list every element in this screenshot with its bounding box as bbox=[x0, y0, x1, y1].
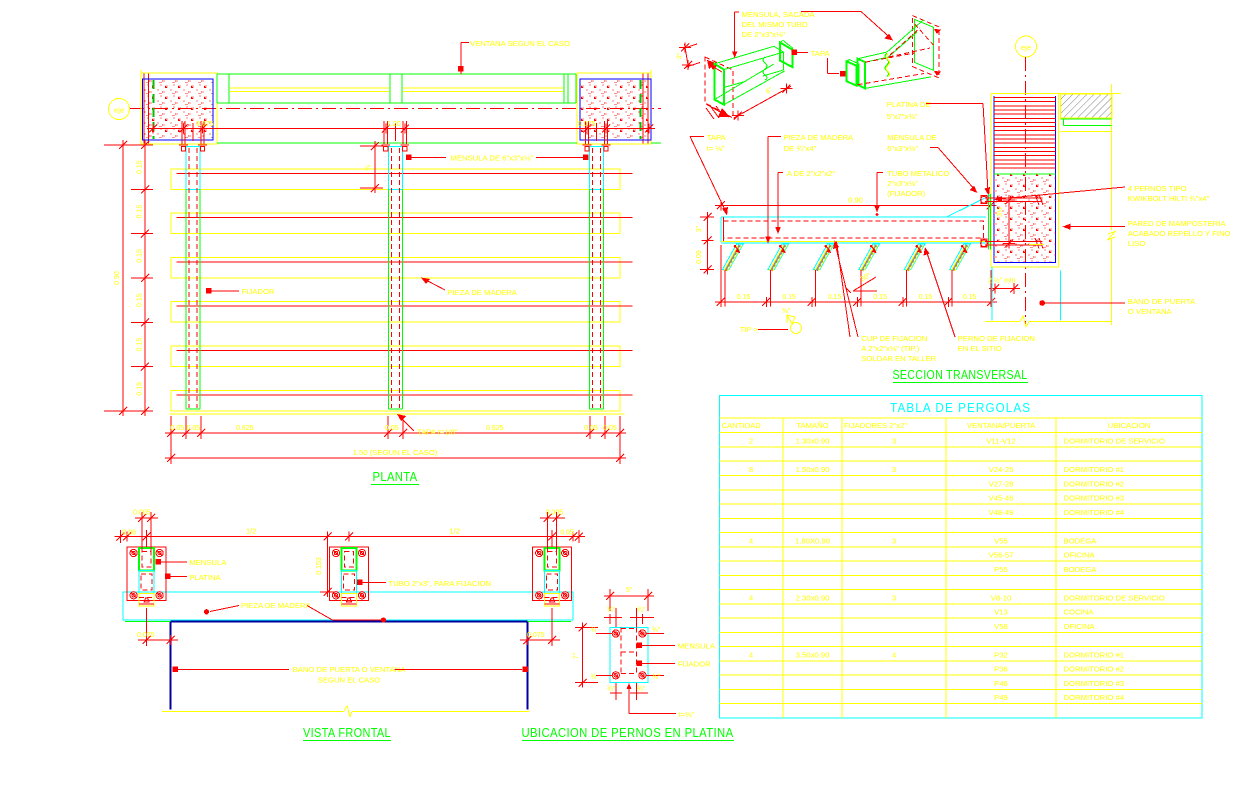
PLANTA view group bbox=[109, 39, 662, 144]
svg-text:6"x3"x⅛": 6"x3"x⅛" bbox=[887, 144, 918, 153]
wall top yellow line bbox=[991, 92, 1121, 94]
svg-text:V8-10: V8-10 bbox=[991, 593, 1012, 602]
bracket assembly 1 (vista frontal) bbox=[127, 547, 166, 600]
svg-text:0.05: 0.05 bbox=[385, 425, 399, 432]
dim 3" iso left bbox=[683, 44, 697, 49]
svg-text:SOLDAR EN TALLER: SOLDAR EN TALLER bbox=[861, 354, 936, 363]
dim 7" left bbox=[582, 627, 584, 682]
angled slat 3 (seccion) bbox=[813, 244, 834, 269]
svg-text:0.15: 0.15 bbox=[782, 294, 796, 301]
svg-text:TABLA DE PERGOLAS: TABLA DE PERGOLAS bbox=[890, 401, 1031, 415]
svg-text:1.30x0.90: 1.30x0.90 bbox=[796, 436, 830, 445]
left column green dashed face bbox=[153, 80, 155, 139]
wall centerline bbox=[1025, 57, 1027, 325]
iso mensula left: red dashed wall plate bbox=[705, 57, 733, 118]
dim 3" (tube height) bbox=[707, 217, 709, 241]
svg-text:LISO: LISO bbox=[1128, 239, 1146, 248]
svg-text:V27-28: V27-28 bbox=[989, 479, 1014, 488]
bottom dim row 0.05/0.625 bbox=[171, 432, 620, 434]
svg-text:3: 3 bbox=[892, 536, 896, 545]
svg-text:0.05: 0.05 bbox=[187, 425, 201, 432]
svg-text:3": 3" bbox=[696, 225, 703, 232]
right column concrete square bbox=[580, 79, 651, 140]
svg-text:8: 8 bbox=[749, 465, 753, 474]
svg-text:2.30x0.90: 2.30x0.90 bbox=[796, 593, 830, 602]
small side dims bbox=[596, 633, 612, 635]
svg-text:MENSULA DE: MENSULA DE bbox=[887, 133, 937, 142]
svg-text:OFICINA: OFICINA bbox=[1064, 551, 1096, 560]
top dim line 1/2,1/2 bbox=[120, 536, 578, 538]
band lower edge green bbox=[217, 142, 577, 144]
left column concrete square bbox=[143, 79, 214, 140]
small dims 3/4 bottom bbox=[615, 683, 617, 700]
angled slat 6 (seccion) bbox=[950, 244, 971, 269]
svg-text:¾": ¾" bbox=[607, 686, 616, 693]
base yellow pad 1 bbox=[139, 593, 154, 606]
svg-text:1.50 (SEGUN EL CASO): 1.50 (SEGUN EL CASO) bbox=[353, 448, 438, 457]
svg-text:CUP DE FIJACION: CUP DE FIJACION bbox=[861, 334, 927, 343]
svg-text:1.80X0.90: 1.80X0.90 bbox=[795, 536, 830, 545]
svg-text:V11-V12: V11-V12 bbox=[986, 436, 1015, 445]
small dims 3/4 top bbox=[609, 614, 611, 624]
svg-text:0.15: 0.15 bbox=[137, 338, 144, 352]
svg-text:FIJADOR: FIJADOR bbox=[242, 287, 275, 296]
svg-text:¾": ¾" bbox=[652, 674, 661, 681]
svg-text:3: 3 bbox=[892, 593, 896, 602]
svg-text:V45-46: V45-46 bbox=[989, 494, 1014, 503]
svg-text:P32: P32 bbox=[994, 650, 1008, 659]
svg-text:0.15: 0.15 bbox=[963, 294, 977, 301]
svg-text:V55: V55 bbox=[994, 536, 1008, 545]
svg-text:4: 4 bbox=[749, 650, 754, 659]
post 1 anchor bolts bbox=[192, 123, 194, 141]
anchor bolt upper bbox=[985, 197, 1042, 199]
wall outer yellow verticals bbox=[990, 93, 992, 267]
wood slat 6 (pieza de madera) bbox=[171, 390, 620, 411]
svg-text:DORMITORIO #1: DORMITORIO #1 bbox=[1064, 650, 1125, 659]
mensula green rect 3 bbox=[545, 548, 560, 571]
svg-text:OFICINA: OFICINA bbox=[1064, 622, 1096, 631]
svg-text:VISTA FRONTAL: VISTA FRONTAL bbox=[303, 726, 391, 740]
table outer border (cyan) bbox=[719, 396, 1202, 719]
svg-text:COCINA: COCINA bbox=[1064, 608, 1095, 617]
svg-text:BODEGA: BODEGA bbox=[1064, 536, 1098, 545]
svg-text:V56-57: V56-57 bbox=[989, 551, 1014, 560]
svg-text:1/2: 1/2 bbox=[246, 527, 257, 536]
centerline eje (planta) bbox=[130, 108, 661, 110]
svg-text:0.05: 0.05 bbox=[560, 529, 574, 536]
iso left red arrows on plate bbox=[712, 66, 722, 72]
svg-text:CANTIDAD: CANTIDAD bbox=[722, 421, 762, 430]
svg-text:PIEZA DE MADERA: PIEZA DE MADERA bbox=[447, 288, 518, 297]
wood slat 5 (pieza de madera) bbox=[171, 346, 620, 367]
svg-text:MENSULA: MENSULA bbox=[678, 642, 716, 651]
svg-text:eje: eje bbox=[114, 106, 124, 115]
fijador post 2 green sides bbox=[387, 190, 389, 410]
dim 0.153 vertical (center) bbox=[327, 537, 329, 593]
wall lower cyan jambs bbox=[991, 267, 993, 321]
bottom dim row 1.50 bbox=[171, 457, 620, 459]
iso mensula right: tube left end face bbox=[858, 59, 865, 89]
svg-text:1.20: 1.20 bbox=[387, 121, 401, 128]
right column green dashed face bbox=[640, 80, 642, 139]
green ledge lines bbox=[1060, 118, 1111, 120]
svg-text:4: 4 bbox=[749, 536, 754, 545]
iso right cut squiggle bbox=[885, 53, 889, 77]
platina cyan rect 2 bbox=[342, 571, 357, 594]
svg-text:UBICACION: UBICACION bbox=[1108, 421, 1151, 430]
svg-text:V24-25: V24-25 bbox=[989, 465, 1014, 474]
dim chain 0.15 x6 (left) bbox=[144, 145, 146, 411]
dim 5" top bbox=[610, 595, 648, 597]
iso left cut squiggle bbox=[763, 57, 767, 80]
iso right red dashed hidden edges bbox=[858, 74, 924, 85]
angled slat 1 (seccion) bbox=[722, 244, 743, 269]
base yellow pad 2 bbox=[342, 593, 357, 606]
platina green lines at wall bbox=[988, 194, 990, 250]
svg-text:0.075: 0.075 bbox=[137, 632, 155, 639]
svg-text:DORMITORIO #4: DORMITORIO #4 bbox=[1064, 508, 1125, 517]
left column outline bbox=[141, 73, 217, 144]
svg-text:¾": ¾" bbox=[652, 627, 661, 634]
angled slat 4 (seccion) bbox=[859, 244, 880, 269]
svg-text:MENSULA: MENSULA bbox=[189, 558, 227, 567]
iso mensula right: red dashed wall plate bbox=[912, 16, 939, 78]
svg-text:DEL MISMO TUBO: DEL MISMO TUBO bbox=[742, 20, 808, 29]
svg-text:KWIKBOLT HILTI ¾"x4": KWIKBOLT HILTI ¾"x4" bbox=[1128, 194, 1210, 203]
floor line with break bbox=[162, 711, 344, 713]
svg-text:7": 7" bbox=[573, 652, 580, 659]
dim 0.90 (seccion) bbox=[721, 204, 991, 206]
svg-text:DORMITORIO DE SERVICIO: DORMITORIO DE SERVICIO bbox=[1064, 593, 1165, 602]
post 3 anchor bolts bbox=[596, 123, 598, 141]
svg-text:5"x7"x⅜": 5"x7"x⅜" bbox=[887, 112, 918, 121]
svg-text:FIJADOR: FIJADOR bbox=[678, 660, 711, 669]
svg-text:DORMITORIO #3: DORMITORIO #3 bbox=[1064, 679, 1125, 688]
iso mensula left: end cap TAPA (thick green) bbox=[780, 42, 792, 67]
svg-text:⅜": ⅜" bbox=[782, 308, 791, 315]
svg-text:PARED DE MAMPOSTERIA: PARED DE MAMPOSTERIA bbox=[1128, 219, 1227, 228]
iso right red plate arrows bbox=[934, 29, 941, 34]
right wall hatch block bbox=[1060, 94, 1112, 118]
svg-text:0.625: 0.625 bbox=[486, 425, 504, 432]
svg-text:DORMITORIO #1: DORMITORIO #1 bbox=[1064, 465, 1125, 474]
svg-text:0.05: 0.05 bbox=[603, 425, 617, 432]
svg-text:P49: P49 bbox=[994, 693, 1008, 702]
angle 30 deg bbox=[853, 277, 876, 291]
svg-text:V13: V13 bbox=[994, 608, 1008, 617]
svg-text:0.075: 0.075 bbox=[527, 632, 545, 639]
svg-text:¾": ¾" bbox=[637, 607, 646, 614]
fijador post 3 red dashed tube bbox=[592, 148, 594, 408]
main tube (tubo metalico fijador) bbox=[721, 216, 986, 218]
svg-text:TIP >: TIP > bbox=[740, 325, 759, 334]
svg-text:0.15: 0.15 bbox=[828, 294, 842, 301]
svg-text:TUBO 2"x3", PARA FIJACION: TUBO 2"x3", PARA FIJACION bbox=[388, 579, 491, 588]
svg-text:SEGUN EL CASO: SEGUN EL CASO bbox=[318, 676, 381, 685]
svg-text:¾: ¾ bbox=[591, 627, 597, 634]
svg-text:0.15: 0.15 bbox=[873, 294, 887, 301]
svg-text:P36: P36 bbox=[994, 665, 1008, 674]
svg-text:V48-49: V48-49 bbox=[989, 508, 1014, 517]
svg-text:2: 2 bbox=[749, 436, 753, 445]
iso mensula right: green platina bbox=[915, 19, 934, 70]
svg-text:4: 4 bbox=[749, 593, 754, 602]
svg-text:4 PERNOS TIPO: 4 PERNOS TIPO bbox=[1128, 184, 1187, 193]
post 2 anchor bolts bbox=[394, 123, 396, 141]
fijador post 1 green sides bbox=[185, 190, 187, 410]
mensula green rect 1 bbox=[139, 548, 154, 571]
pieza de madera band bbox=[123, 592, 573, 620]
wood slat 2 (pieza de madera) bbox=[171, 213, 620, 234]
svg-text:0.075: 0.075 bbox=[196, 121, 214, 128]
svg-text:PERNO DE FIJACION: PERNO DE FIJACION bbox=[958, 334, 1035, 343]
svg-text:0.05: 0.05 bbox=[171, 425, 185, 432]
left jamb lines bbox=[140, 70, 142, 144]
iso mensula left: tube left end face (thick) bbox=[715, 64, 725, 105]
fijador post 3 green sides bbox=[589, 190, 591, 410]
mensula green rect 2 bbox=[342, 548, 357, 571]
iso mensula right: TAPA cap (thick green) bbox=[847, 61, 857, 85]
svg-text:¾: ¾ bbox=[591, 674, 597, 681]
lower floor line with break bbox=[985, 321, 1020, 323]
svg-text:0.15: 0.15 bbox=[137, 293, 144, 307]
fijador post 1 red dashed tube bbox=[188, 148, 190, 408]
eje symbol circle (planta) bbox=[109, 99, 130, 120]
svg-text:A 2"x2"x⅛" (TIP.): A 2"x2"x⅛" (TIP.) bbox=[861, 344, 919, 353]
right jamb lines bbox=[650, 70, 652, 144]
wall bottom bbox=[994, 262, 1056, 264]
slat base line bbox=[170, 413, 625, 415]
sill line green/blue bbox=[125, 621, 171, 623]
dim 0.90 overall (left) bbox=[122, 145, 124, 411]
svg-text:0.15: 0.15 bbox=[137, 249, 144, 263]
dim row 0.15 x6 (seccion) bbox=[721, 301, 991, 303]
svg-text:TAPA: TAPA bbox=[707, 133, 727, 142]
wall block hatch (upper) bbox=[993, 96, 995, 263]
angled slat 5 (seccion) bbox=[904, 244, 925, 269]
dim 0.075 left bbox=[146, 608, 148, 646]
window frame (ventana) bbox=[217, 73, 576, 75]
small dim 0.005 right bbox=[540, 517, 565, 519]
svg-text:5": 5" bbox=[626, 587, 633, 594]
svg-text:2"x3"x⅛": 2"x3"x⅛" bbox=[887, 179, 918, 188]
window glass lines (yellow) bbox=[230, 87, 389, 89]
svg-text:0.90: 0.90 bbox=[114, 271, 121, 285]
svg-text:O VENTANA: O VENTANA bbox=[1128, 307, 1173, 316]
fijador post 3 cyan top segment bbox=[590, 147, 604, 190]
dim 0.075 right bbox=[551, 608, 553, 646]
svg-text:A DE 2"x2"x2": A DE 2"x2"x2" bbox=[787, 169, 836, 178]
door jamb verticals (blue) bbox=[170, 622, 172, 710]
svg-text:0.05: 0.05 bbox=[584, 425, 598, 432]
iso mensula left: bottom taper edges bbox=[715, 64, 774, 100]
svg-text:DE 2"x3"x⅛": DE 2"x3"x⅛" bbox=[742, 30, 786, 39]
mensula dashed tube bbox=[620, 627, 622, 673]
svg-text:DORMITORIO #2: DORMITORIO #2 bbox=[1064, 665, 1125, 674]
svg-text:SECCION TRANSVERSAL: SECCION TRANSVERSAL bbox=[893, 368, 1028, 382]
dim 6" iso left bbox=[734, 86, 792, 118]
svg-text:TUBO METALICO: TUBO METALICO bbox=[887, 169, 949, 178]
svg-text:VENTANA SEGUN EL CASO: VENTANA SEGUN EL CASO bbox=[470, 39, 570, 48]
wood slat 4 (pieza de madera) bbox=[171, 302, 620, 323]
svg-text:t= ⅛": t= ⅛" bbox=[707, 144, 725, 153]
base yellow pad 3 bbox=[545, 593, 560, 606]
svg-text:BANO DE PUERTA: BANO DE PUERTA bbox=[1128, 297, 1196, 306]
svg-text:0.15: 0.15 bbox=[137, 160, 144, 174]
svg-text:UBICACION DE PERNOS EN PLATINA: UBICACION DE PERNOS EN PLATINA bbox=[522, 726, 734, 740]
bracket assembly 2 (vista frontal) bbox=[330, 547, 369, 600]
svg-text:0.075: 0.075 bbox=[578, 121, 596, 128]
svg-text:3.50x0.90: 3.50x0.90 bbox=[796, 650, 830, 659]
bracket assembly 3 (vista frontal) bbox=[533, 547, 572, 600]
platina plate cyan bbox=[610, 627, 648, 682]
svg-text:TAMAÑO: TAMAÑO bbox=[796, 421, 828, 430]
fijador post 1 cyan top segment bbox=[186, 147, 200, 190]
wood slat 1 (pieza de madera) bbox=[171, 169, 620, 190]
svg-text:eje: eje bbox=[1021, 43, 1031, 52]
svg-text:0.09: 0.09 bbox=[696, 250, 703, 264]
svg-text:DORMITORIO #3: DORMITORIO #3 bbox=[1064, 494, 1125, 503]
svg-text:VENTANA/PUERTA: VENTANA/PUERTA bbox=[967, 421, 1036, 430]
wall concrete stipple (lower) bbox=[994, 175, 1056, 263]
wood slat 3 (pieza de madera) bbox=[171, 257, 620, 278]
svg-text:PLATINA DE: PLATINA DE bbox=[887, 100, 931, 109]
iso mensula left: green tube top face bbox=[715, 46, 784, 69]
dim 3 1/2 between bolts bbox=[1008, 200, 1010, 243]
svg-text:¾": ¾" bbox=[637, 686, 646, 693]
svg-text:0.15: 0.15 bbox=[137, 382, 144, 396]
iso mensula right: tube edges bbox=[858, 52, 887, 59]
svg-text:PIEZA DE MADERA: PIEZA DE MADERA bbox=[784, 133, 855, 142]
angled slat 2 (seccion) bbox=[768, 244, 789, 269]
svg-text:BODEGA: BODEGA bbox=[1064, 565, 1098, 574]
svg-text:DE ¾"x4": DE ¾"x4" bbox=[784, 144, 817, 153]
dim line 0.075 / 1.20 / 0.075 bbox=[153, 128, 649, 130]
svg-text:0.153: 0.153 bbox=[316, 557, 323, 575]
svg-text:(FIJADOR): (FIJADOR) bbox=[887, 189, 925, 198]
svg-text:3: 3 bbox=[892, 465, 896, 474]
svg-text:P55: P55 bbox=[994, 565, 1008, 574]
svg-text:0.15: 0.15 bbox=[919, 294, 933, 301]
svg-text:DORMITORIO #2: DORMITORIO #2 bbox=[1064, 479, 1125, 488]
svg-text:FIJADORES 2"x2": FIJADORES 2"x2" bbox=[844, 421, 907, 430]
svg-text:PLANTA: PLANTA bbox=[373, 470, 418, 484]
fijador post 2 cyan top segment bbox=[388, 147, 402, 190]
svg-text:1.50x0.90: 1.50x0.90 bbox=[796, 465, 830, 474]
svg-text:0.15: 0.15 bbox=[137, 205, 144, 219]
svg-text:DORMITORIO DE SERVICIO: DORMITORIO DE SERVICIO bbox=[1064, 436, 1165, 445]
svg-text:TAPA t=1/8": TAPA t=1/8" bbox=[417, 428, 458, 437]
table grid lines bbox=[719, 417, 1202, 419]
small dim at center post bbox=[374, 146, 376, 188]
anchor bolt lower bbox=[985, 241, 1042, 243]
svg-text:BANO DE PUERTA O VENTANA: BANO DE PUERTA O VENTANA bbox=[293, 665, 407, 674]
svg-text:0.06: 0.06 bbox=[122, 529, 136, 536]
svg-text:t=⅛": t=⅛" bbox=[679, 710, 695, 719]
small dim 0.005 left bbox=[135, 517, 158, 519]
svg-text:3½: 3½ bbox=[996, 207, 1004, 217]
svg-text:DORMITORIO #4: DORMITORIO #4 bbox=[1064, 693, 1125, 702]
dim 0.09 (slat drop) bbox=[707, 241, 709, 269]
svg-text:PLATINA: PLATINA bbox=[189, 573, 221, 582]
svg-text:0.005: 0.005 bbox=[546, 510, 564, 517]
svg-text:0.90: 0.90 bbox=[848, 196, 863, 205]
svg-text:ACABADO REPELLO Y FINO: ACABADO REPELLO Y FINO bbox=[1128, 229, 1231, 238]
svg-text:¾": ¾" bbox=[607, 607, 616, 614]
pernos (4 bolts) bbox=[612, 630, 619, 637]
fijador post 2 red dashed tube bbox=[390, 148, 392, 408]
iso mensula left: green tube front face bbox=[724, 52, 783, 87]
svg-text:0.15: 0.15 bbox=[737, 294, 751, 301]
svg-text:1/2: 1/2 bbox=[449, 527, 460, 536]
svg-text:MENSULA DE 6"x3"x⅛": MENSULA DE 6"x3"x⅛" bbox=[451, 154, 534, 163]
svg-text:0.625: 0.625 bbox=[236, 425, 254, 432]
platina cyan rect 1 bbox=[139, 571, 154, 594]
svg-text:4: 4 bbox=[892, 650, 897, 659]
svg-text:EN EL SITIO: EN EL SITIO bbox=[958, 344, 1002, 353]
svg-text:¾: ¾ bbox=[365, 165, 372, 171]
mensula diagonal (cyan) bbox=[947, 196, 990, 217]
svg-text:P46: P46 bbox=[994, 679, 1008, 688]
svg-text:TAPA: TAPA bbox=[811, 49, 831, 58]
svg-text:PIEZA DE MADERA: PIEZA DE MADERA bbox=[241, 601, 312, 610]
svg-text:3: 3 bbox=[892, 436, 896, 445]
svg-text:V58: V58 bbox=[994, 622, 1008, 631]
platina cyan rect 3 bbox=[545, 571, 560, 594]
right column outline bbox=[577, 73, 651, 144]
eje circle (seccion) bbox=[1016, 36, 1037, 57]
